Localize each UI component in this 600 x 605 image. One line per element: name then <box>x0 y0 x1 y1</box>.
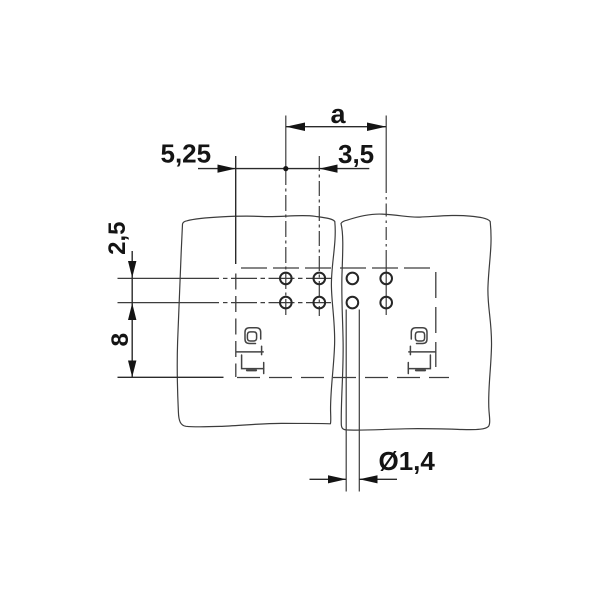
svg-text:3,5: 3,5 <box>338 139 374 169</box>
svg-text:5,25: 5,25 <box>161 138 212 168</box>
svg-text:8: 8 <box>107 333 134 347</box>
svg-text:a: a <box>331 99 347 129</box>
svg-text:Ø1,4: Ø1,4 <box>379 446 436 476</box>
svg-text:2,5: 2,5 <box>104 222 131 255</box>
